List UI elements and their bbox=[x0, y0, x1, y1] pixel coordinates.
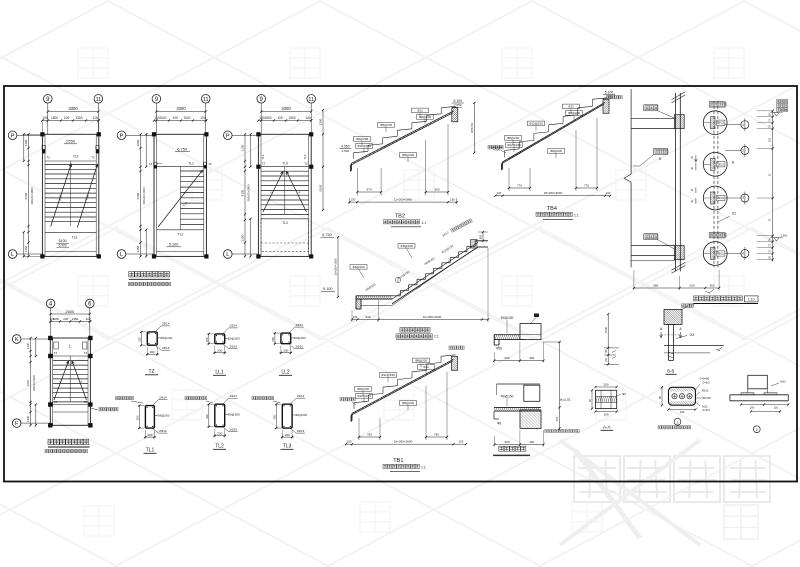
svg-text:2550: 2550 bbox=[66, 139, 76, 144]
stair column dashed lines bbox=[714, 101, 718, 268]
svg-text:360: 360 bbox=[709, 284, 714, 288]
wall lines (wall section) bbox=[672, 92, 686, 274]
svg-text:L: L bbox=[120, 252, 123, 258]
svg-text:TL2: TL2 bbox=[261, 154, 265, 159]
svg-text:TL3: TL3 bbox=[282, 162, 288, 166]
svg-text:100: 100 bbox=[64, 116, 70, 120]
svg-text:100: 100 bbox=[93, 116, 99, 120]
svg-text:2Φ14: 2Φ14 bbox=[295, 323, 303, 327]
lower landing dashed (plan 3) bbox=[261, 219, 309, 252]
TZ column symbols (plan 2) bbox=[149, 162, 212, 169]
svg-text:200: 200 bbox=[283, 349, 288, 353]
svg-text:7.550: 7.550 bbox=[454, 103, 462, 107]
left dimension chain (plan 3) bbox=[241, 133, 252, 257]
svg-text:C=8.0: C=8.0 bbox=[702, 381, 710, 385]
grid circle 11 (plan 2) bbox=[201, 95, 210, 104]
level mark lower bbox=[771, 234, 788, 242]
svg-text:TZ: TZ bbox=[262, 162, 266, 166]
svg-text:Φ6@200: Φ6@200 bbox=[294, 336, 306, 340]
detail circle 1 bbox=[703, 111, 727, 135]
svg-text:6100: 6100 bbox=[136, 192, 140, 199]
svg-text:2Φ16: 2Φ16 bbox=[229, 345, 237, 349]
svg-text:L: L bbox=[226, 252, 229, 258]
label box lower-left bbox=[644, 234, 675, 249]
svg-text:300x15=3000: 300x15=3000 bbox=[247, 184, 251, 201]
stair slab section TB2 bbox=[339, 99, 463, 172]
beam block lower (hatched) bbox=[674, 246, 684, 260]
svg-text:Φ8@200: Φ8@200 bbox=[568, 111, 580, 115]
svg-text:Φ8@200: Φ8@200 bbox=[357, 387, 369, 391]
svg-text:2350: 2350 bbox=[241, 234, 245, 241]
columns (plan 1 corners) bbox=[40, 132, 101, 258]
svg-text:150: 150 bbox=[353, 315, 358, 319]
svg-text:TB4: TB4 bbox=[547, 206, 557, 212]
svg-text:150: 150 bbox=[768, 137, 772, 142]
svg-text:2Φ14: 2Φ14 bbox=[229, 324, 237, 328]
grid circle L (plan 2) bbox=[117, 250, 126, 259]
svg-text:200: 200 bbox=[63, 317, 68, 321]
lower landing slab lines bbox=[631, 246, 675, 261]
title TB2 bbox=[383, 214, 426, 227]
svg-text:200: 200 bbox=[285, 433, 290, 437]
title: second floor stair plan bbox=[128, 272, 170, 286]
embedded plate detail 2 bbox=[730, 375, 790, 432]
svg-text:TL2: TL2 bbox=[178, 232, 184, 236]
slab leader label (TL1) bbox=[116, 397, 144, 404]
hanging bar detail (upper) bbox=[493, 314, 544, 363]
svg-text:B: B bbox=[659, 157, 661, 161]
top dimension lines (plan 1) bbox=[41, 106, 100, 134]
svg-text:Φ6@150: Φ6@150 bbox=[501, 316, 514, 320]
svg-text:Φ6@200: Φ6@200 bbox=[295, 413, 307, 417]
svg-text:2600: 2600 bbox=[65, 309, 75, 314]
row leaders (plan 4) bbox=[21, 339, 50, 423]
svg-text:2: 2 bbox=[742, 149, 744, 153]
svg-text:960: 960 bbox=[653, 284, 658, 288]
circle tag 1 bbox=[725, 118, 749, 131]
svg-text:B-B: B-B bbox=[667, 369, 674, 374]
svg-text:3050-50: 3050-50 bbox=[470, 122, 474, 133]
title TB4 bbox=[536, 206, 579, 219]
svg-text:B: B bbox=[768, 174, 772, 176]
top dimensions (plan 4) bbox=[49, 309, 91, 323]
dimension lines (TB1) bbox=[345, 372, 467, 445]
svg-text:250: 250 bbox=[689, 284, 694, 288]
note top-right (TB1) bbox=[449, 346, 464, 349]
left dimension chain (plan 1) bbox=[23, 133, 43, 257]
title: first floor stair plan bbox=[45, 439, 90, 453]
svg-text:11: 11 bbox=[96, 97, 102, 103]
row leaders (plan 2) bbox=[126, 135, 154, 254]
svg-text:Φ12@150: Φ12@150 bbox=[357, 144, 371, 148]
svg-text:8100: 8100 bbox=[24, 192, 28, 199]
svg-text:3300: 3300 bbox=[176, 106, 186, 111]
beam block upper (hatched) bbox=[674, 115, 684, 129]
svg-text:8100: 8100 bbox=[241, 189, 245, 196]
svg-text:2Φ16: 2Φ16 bbox=[295, 345, 303, 349]
svg-text:1300: 1300 bbox=[26, 415, 30, 422]
grid circle P (plan 2) bbox=[117, 131, 126, 140]
svg-text:200: 200 bbox=[217, 432, 222, 436]
stair slab section TB4 bbox=[491, 90, 615, 170]
svg-text:1:1: 1:1 bbox=[434, 335, 439, 339]
title: hanging bar detail bbox=[493, 446, 530, 455]
hanging bar detail (lower) bbox=[493, 341, 579, 447]
section detail A-A bbox=[588, 383, 626, 431]
svg-text:A-A: A-A bbox=[603, 425, 612, 430]
svg-text:Φ8@200: Φ8@200 bbox=[507, 136, 519, 140]
svg-text:TZ: TZ bbox=[208, 162, 212, 166]
grid leaders (plan 2) bbox=[156, 103, 205, 134]
grid circle 6 bbox=[86, 299, 95, 308]
stair treads (plan 2) bbox=[181, 167, 204, 230]
svg-text:2350: 2350 bbox=[136, 245, 140, 252]
grid circle L (plan 3) bbox=[224, 250, 233, 259]
svg-text:Φ8@200: Φ8@200 bbox=[402, 153, 414, 157]
svg-text:300x13=3900: 300x13=3900 bbox=[32, 375, 36, 391]
dimension lines (TB4) bbox=[494, 118, 611, 197]
svg-text:Φ8@200: Φ8@200 bbox=[356, 137, 368, 141]
flight arrow (plan 2) bbox=[158, 170, 203, 227]
svg-text:3300: 3300 bbox=[68, 106, 78, 111]
svg-text:100: 100 bbox=[172, 116, 178, 120]
bottom dimensions (wall section) bbox=[633, 270, 720, 293]
right dimension (TB2) bbox=[470, 102, 476, 154]
svg-text:6.750: 6.750 bbox=[177, 146, 188, 151]
svg-text:930: 930 bbox=[365, 315, 370, 319]
detail circle 2 bbox=[703, 152, 727, 176]
stair treads (plan 1) bbox=[45, 161, 96, 226]
svg-text:650: 650 bbox=[479, 234, 483, 239]
svg-text:2350: 2350 bbox=[319, 118, 323, 125]
svg-text:100: 100 bbox=[200, 116, 206, 120]
svg-text:960: 960 bbox=[434, 188, 439, 192]
svg-text:6.900: 6.900 bbox=[59, 244, 67, 248]
grid leaders (plan 4) bbox=[51, 308, 90, 338]
grid circle 11 (plan 1) bbox=[94, 95, 103, 104]
svg-text:150: 150 bbox=[351, 198, 356, 202]
svg-text:11×260=2860: 11×260=2860 bbox=[394, 198, 413, 202]
svg-text:770: 770 bbox=[584, 184, 589, 188]
railing post detail GZ bbox=[660, 303, 724, 375]
svg-text:760: 760 bbox=[434, 433, 439, 437]
note left (TB1) bbox=[340, 398, 356, 406]
svg-text:LL2: LL2 bbox=[281, 370, 290, 376]
svg-text:Φ12: Φ12 bbox=[423, 365, 429, 369]
svg-text:1400: 1400 bbox=[24, 139, 28, 146]
title: stair hole detail bbox=[682, 296, 759, 308]
svg-text:1500: 1500 bbox=[288, 116, 295, 120]
dimension lines (TB2) bbox=[348, 124, 457, 204]
svg-text:2Φ14: 2Φ14 bbox=[162, 322, 170, 326]
svg-text:5.100: 5.100 bbox=[605, 90, 614, 94]
svg-text:1500: 1500 bbox=[264, 116, 271, 120]
svg-text:2Φ16: 2Φ16 bbox=[297, 429, 305, 433]
svg-text:TL3: TL3 bbox=[283, 444, 292, 450]
svg-text:Φ12@150: Φ12@150 bbox=[381, 373, 395, 377]
svg-text:250: 250 bbox=[205, 337, 209, 342]
beam section LL1 bbox=[205, 324, 240, 376]
grid circle P (plan 3) bbox=[224, 131, 233, 140]
svg-text:Φ6@200: Φ6@200 bbox=[228, 412, 240, 416]
svg-text:Φ8@200: Φ8@200 bbox=[400, 244, 412, 248]
svg-text:200: 200 bbox=[150, 350, 155, 354]
svg-text:750: 750 bbox=[604, 357, 608, 362]
flight direction arrows (plan 1) bbox=[51, 164, 98, 228]
svg-text:300: 300 bbox=[272, 414, 276, 419]
svg-text:10×260=2600: 10×260=2600 bbox=[423, 315, 442, 319]
watermark glyphs bbox=[78, 48, 744, 536]
dimension line (TB3) bbox=[351, 248, 489, 322]
svg-text:0530: 0530 bbox=[319, 184, 323, 191]
svg-text:1450: 1450 bbox=[24, 245, 28, 252]
level dimension column (mid-right) bbox=[604, 313, 619, 366]
svg-text:2Φ22: 2Φ22 bbox=[717, 252, 724, 256]
svg-text:5.100: 5.100 bbox=[169, 243, 179, 247]
svg-text:6.750: 6.750 bbox=[322, 233, 332, 237]
svg-text:1500: 1500 bbox=[183, 116, 190, 120]
svg-text:1: 1 bbox=[742, 123, 744, 127]
stair plan 4 outline bbox=[50, 338, 90, 425]
left dimension chain (plan 2) bbox=[136, 133, 147, 257]
svg-text:C=8.0: C=8.0 bbox=[702, 408, 710, 412]
svg-text:P: P bbox=[11, 133, 15, 139]
level mark upper bbox=[771, 109, 788, 117]
upper landing (plan 1) bbox=[45, 139, 96, 161]
svg-text:Φ8@200: Φ8@200 bbox=[419, 115, 431, 119]
beam section LL2 bbox=[271, 323, 306, 376]
svg-text:TZ: TZ bbox=[91, 156, 95, 160]
svg-text:1500: 1500 bbox=[159, 116, 166, 120]
rebar labels (TB3) bbox=[350, 230, 454, 292]
svg-text:5.100: 5.100 bbox=[454, 99, 463, 103]
svg-text:TZ: TZ bbox=[54, 400, 58, 404]
svg-text:250: 250 bbox=[137, 337, 141, 342]
svg-text:TL2: TL2 bbox=[188, 162, 194, 166]
svg-text:300: 300 bbox=[529, 440, 534, 444]
upper area (plan 3) bbox=[261, 154, 309, 167]
svg-text:Φ6: Φ6 bbox=[497, 421, 502, 425]
svg-text:Φ6: Φ6 bbox=[622, 392, 626, 396]
svg-text:Φ12@150: Φ12@150 bbox=[357, 394, 371, 398]
svg-text:B: B bbox=[768, 219, 772, 221]
svg-text:Φ8@200: Φ8@200 bbox=[550, 149, 562, 153]
svg-text:2Φ22: 2Φ22 bbox=[717, 196, 724, 200]
svg-text:Φ6@200: Φ6@200 bbox=[160, 336, 172, 340]
svg-text:18×200=3600: 18×200=3600 bbox=[544, 191, 563, 195]
svg-text:2Φ16: 2Φ16 bbox=[159, 429, 167, 433]
columns (plan 2 corners) bbox=[152, 132, 209, 258]
svg-text:TB1: TB1 bbox=[393, 458, 403, 464]
svg-text:TZ: TZ bbox=[84, 351, 88, 355]
svg-text:F: F bbox=[15, 421, 19, 427]
svg-text:200: 200 bbox=[504, 356, 509, 360]
svg-text:2Φ22: 2Φ22 bbox=[717, 162, 724, 166]
grid circle 9 (plan 1) bbox=[44, 95, 53, 104]
svg-text:5.100: 5.100 bbox=[323, 287, 333, 291]
label box mid-left bbox=[633, 148, 668, 166]
grid circle 9 (plan 3) bbox=[257, 95, 266, 104]
right dimension (TB3) bbox=[478, 231, 488, 242]
svg-text:2: 2 bbox=[756, 428, 758, 432]
stair slab section TB1 bbox=[351, 355, 458, 422]
svg-text:Φ6@200: Φ6@200 bbox=[157, 414, 169, 418]
svg-text:TZ: TZ bbox=[46, 156, 50, 160]
svg-text:Φ8@200: Φ8@200 bbox=[352, 265, 364, 269]
beam section TL3 bbox=[272, 394, 307, 450]
label B bbox=[732, 160, 734, 164]
svg-text:1:1: 1:1 bbox=[422, 221, 427, 225]
TZ column symbols (plan 1) bbox=[42, 146, 99, 160]
grid leaders (plan 3) bbox=[261, 103, 311, 134]
svg-text:3M12: 3M12 bbox=[702, 389, 709, 393]
stair plan 3 outline bbox=[258, 134, 311, 256]
svg-text:300: 300 bbox=[135, 415, 139, 420]
lower landing (plan 2) bbox=[157, 230, 204, 252]
flight arrows (plan 4) bbox=[54, 361, 87, 400]
svg-text:TL2: TL2 bbox=[215, 444, 224, 450]
svg-text:2000: 2000 bbox=[136, 139, 140, 146]
section arrows A (upper) bbox=[691, 155, 697, 170]
circle tag 3 bbox=[725, 192, 749, 205]
svg-text:P: P bbox=[226, 133, 230, 139]
stair plan 2 outline bbox=[154, 134, 206, 256]
svg-text:1: 1 bbox=[677, 420, 679, 424]
svg-text:1500: 1500 bbox=[51, 116, 58, 120]
svg-text:4.500: 4.500 bbox=[342, 149, 350, 153]
svg-text:B: B bbox=[732, 160, 734, 164]
stair plan 1 outline bbox=[42, 134, 98, 256]
svg-text:TL2: TL2 bbox=[73, 154, 79, 158]
level marks (TB3) bbox=[321, 233, 340, 298]
svg-text:300x16=3000: 300x16=3000 bbox=[142, 187, 146, 204]
svg-text:250: 250 bbox=[271, 337, 275, 342]
svg-text:300: 300 bbox=[529, 356, 534, 360]
sloped note (TB2) bbox=[451, 219, 473, 233]
beam section TZ bbox=[137, 322, 172, 375]
svg-text:M12: M12 bbox=[780, 379, 786, 383]
svg-text:Φ12: Φ12 bbox=[417, 109, 423, 113]
label GZ leader bbox=[718, 212, 736, 223]
svg-text:200: 200 bbox=[147, 433, 152, 437]
svg-text:200: 200 bbox=[603, 383, 608, 387]
svg-text:TZ: TZ bbox=[149, 162, 153, 166]
svg-text:300: 300 bbox=[205, 414, 209, 419]
row leaders (plan 3) bbox=[232, 135, 258, 254]
svg-text:2100: 2100 bbox=[241, 144, 245, 151]
svg-text:150: 150 bbox=[450, 198, 455, 202]
svg-text:100: 100 bbox=[680, 410, 685, 414]
lower landing (plan 1) bbox=[45, 232, 96, 251]
circle tag 2 bbox=[725, 144, 749, 157]
svg-text:100: 100 bbox=[305, 116, 311, 120]
svg-text:1:1: 1:1 bbox=[421, 466, 426, 470]
svg-text:1300: 1300 bbox=[26, 342, 30, 349]
landing slab (TB3) bbox=[356, 252, 470, 309]
svg-text:190: 190 bbox=[603, 412, 608, 416]
svg-text:1.500: 1.500 bbox=[781, 234, 788, 238]
svg-text:970: 970 bbox=[366, 188, 371, 192]
svg-text:2Φ16: 2Φ16 bbox=[229, 428, 237, 432]
svg-text:TZ: TZ bbox=[84, 400, 88, 404]
svg-text:100: 100 bbox=[606, 191, 611, 195]
svg-text:1:1: 1:1 bbox=[574, 214, 579, 218]
svg-text:TL2: TL2 bbox=[303, 154, 307, 159]
svg-text:760: 760 bbox=[367, 433, 372, 437]
stair treads (plan 4) bbox=[53, 356, 88, 402]
svg-text:Φ12@150: Φ12@150 bbox=[507, 143, 521, 147]
svg-text:TB2: TB2 bbox=[395, 214, 405, 220]
grid circle 9 (plan 2) bbox=[152, 95, 161, 104]
top-right text block bbox=[777, 100, 788, 112]
svg-text:100: 100 bbox=[347, 440, 352, 444]
svg-text:11: 11 bbox=[203, 97, 209, 103]
top dimensions (plan 3) bbox=[257, 106, 312, 122]
note top-right (TB4) bbox=[607, 96, 622, 99]
svg-text:4: 4 bbox=[742, 252, 744, 256]
embedded plate detail 1 bbox=[658, 377, 711, 429]
grid circle P (plan 1) bbox=[8, 131, 17, 140]
svg-text:2Φ16: 2Φ16 bbox=[162, 346, 170, 350]
svg-text:10×200=1650: 10×200=1650 bbox=[334, 258, 338, 276]
svg-text:TL2: TL2 bbox=[72, 235, 78, 239]
grid circle 11 (plan 3) bbox=[307, 95, 316, 104]
svg-text:100: 100 bbox=[459, 440, 464, 444]
stair flight (TB3) bbox=[392, 240, 488, 304]
svg-text:2Φ14: 2Φ14 bbox=[297, 394, 305, 398]
columns (plan 3) bbox=[256, 132, 313, 258]
svg-text:TZ: TZ bbox=[148, 369, 154, 375]
svg-text:2Φ14: 2Φ14 bbox=[229, 394, 237, 398]
watermark bottom-right logo bbox=[560, 440, 770, 545]
svg-text:P: P bbox=[120, 133, 124, 139]
svg-text:150×50: 150×50 bbox=[701, 396, 711, 400]
row leader lines (plan 1) bbox=[17, 135, 43, 254]
svg-text:TZ: TZ bbox=[304, 162, 308, 166]
svg-text:100: 100 bbox=[750, 405, 755, 409]
svg-text:100: 100 bbox=[277, 116, 283, 120]
grid circle L (plan 1) bbox=[8, 250, 17, 259]
svg-text:350: 350 bbox=[555, 416, 559, 421]
lower landing (plan 4) bbox=[53, 400, 88, 412]
svg-text:1150: 1150 bbox=[72, 317, 79, 321]
title TB1 bbox=[383, 458, 426, 471]
svg-text:Φ8@200: Φ8@200 bbox=[415, 359, 427, 363]
grid circle 4 bbox=[46, 299, 55, 308]
svg-text:1150: 1150 bbox=[53, 317, 60, 321]
svg-text:Φ12@150: Φ12@150 bbox=[529, 122, 543, 126]
right dimension (plan 3) bbox=[319, 109, 325, 211]
svg-text:Φ6@200: Φ6@200 bbox=[228, 336, 240, 340]
svg-text:-140×80: -140×80 bbox=[699, 377, 710, 381]
svg-text:3300: 3300 bbox=[281, 106, 291, 111]
upper landing (plan 2) bbox=[157, 146, 204, 166]
svg-text:100: 100 bbox=[85, 317, 90, 321]
svg-text:6170: 6170 bbox=[26, 379, 30, 386]
columns (plan 4) bbox=[48, 336, 93, 428]
svg-text:110: 110 bbox=[774, 405, 779, 409]
svg-text:TZ: TZ bbox=[54, 351, 58, 355]
svg-text:H=4.75: H=4.75 bbox=[560, 398, 571, 402]
svg-text:TL3: TL3 bbox=[282, 221, 288, 225]
note left (TB4) bbox=[488, 146, 506, 154]
left dimension chain (plan 4) bbox=[26, 337, 37, 427]
svg-text:L: L bbox=[11, 252, 14, 258]
svg-text:Φ8@200: Φ8@200 bbox=[380, 123, 392, 127]
svg-text:300x16=4800: 300x16=4800 bbox=[30, 187, 34, 204]
svg-text:Φ8@200: Φ8@200 bbox=[402, 401, 414, 405]
title TB3 bbox=[396, 328, 439, 340]
